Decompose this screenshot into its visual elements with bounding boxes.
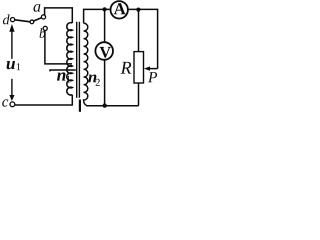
svg-text:c: c bbox=[2, 95, 9, 111]
junction dot bottom voltmeter bbox=[103, 103, 107, 107]
junction dot right of ammeter bbox=[136, 8, 140, 12]
svg-text:d: d bbox=[3, 12, 11, 28]
svg-text:u: u bbox=[6, 53, 16, 73]
wire bottom-left from c to primary bbox=[15, 104, 73, 106]
core bottom mark bbox=[79, 100, 81, 112]
wire R top lead bbox=[138, 10, 140, 52]
wire R bottom lead bbox=[138, 83, 140, 106]
wire voltmeter top lead bbox=[104, 9, 106, 42]
transformer primary winding n1 bbox=[67, 23, 73, 95]
svg-text:b: b bbox=[39, 26, 46, 41]
switch pivot circle bbox=[30, 20, 34, 24]
svg-text:R: R bbox=[120, 58, 132, 78]
junction dot left of ammeter bbox=[103, 7, 107, 11]
transformer core line 1 bbox=[76, 22, 78, 98]
resistor R box bbox=[134, 52, 144, 83]
wire rheostat wiper arm bbox=[149, 68, 158, 70]
transformer secondary winding n2 bbox=[84, 23, 88, 105]
arrowhead u1 up at d bbox=[9, 24, 14, 32]
svg-text:P: P bbox=[147, 69, 158, 86]
wire ammeter to top-right corner and down right edge bbox=[129, 9, 158, 68]
source u1 line upper bbox=[11, 29, 13, 59]
svg-text:1: 1 bbox=[16, 62, 21, 73]
terminal c circle bbox=[10, 102, 15, 107]
svg-text:a: a bbox=[33, 0, 41, 16]
source u1 line lower bbox=[11, 79, 13, 97]
switch blade pivot to a bbox=[34, 18, 42, 21]
wire secondary top stub bbox=[84, 9, 110, 23]
wire top-left from a riser to transformer bbox=[45, 8, 73, 23]
terminal b circle bbox=[43, 26, 47, 30]
svg-text:A: A bbox=[114, 0, 126, 18]
wire voltmeter bottom lead bbox=[104, 60, 106, 106]
svg-text:1: 1 bbox=[66, 75, 71, 86]
switch blade d to pivot bbox=[15, 20, 30, 22]
wire primary bottom stub bbox=[71, 95, 73, 106]
terminal d circle bbox=[11, 18, 15, 22]
wire b tap vertical and horizontal bbox=[45, 30, 72, 64]
wire bottom right from secondary to R lead bbox=[86, 105, 138, 107]
wire n1 leader line bbox=[50, 70, 76, 71]
terminal a circle bbox=[41, 15, 45, 19]
arrowhead u1 down at c bbox=[9, 95, 14, 101]
voltmeter V1 circle bbox=[95, 42, 113, 60]
svg-text:V: V bbox=[99, 44, 111, 62]
arrowhead wiper P at R bbox=[144, 66, 150, 70]
svg-text:2: 2 bbox=[95, 78, 100, 89]
ammeter A1 circle bbox=[111, 1, 128, 18]
transformer core line 2 bbox=[78, 22, 80, 98]
